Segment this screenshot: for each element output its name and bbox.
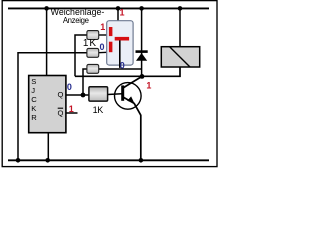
LED segment bar 2 (red) <box>109 42 113 53</box>
junction node on rail at diode <box>139 6 144 11</box>
junction node on rail at LED <box>116 6 121 11</box>
LED segment bar 1 (red) <box>109 27 113 36</box>
collector lead <box>124 76 142 87</box>
diode D1 flyback <box>136 50 148 60</box>
wire diode branch vertical <box>141 8 143 76</box>
junction node ground left <box>16 158 21 163</box>
wire R3 left to Q node <box>83 69 88 95</box>
wire R3 right to diode net <box>99 68 142 70</box>
junction node ground emitter <box>139 158 144 163</box>
flip-flop U1 <box>29 76 66 133</box>
wire flip-flop bottom pin to ground <box>47 133 49 161</box>
junction node ground FF <box>45 158 50 163</box>
wire bottom ground rail <box>8 159 209 161</box>
resistor R3 <box>87 64 99 73</box>
svg-text:R: R <box>31 113 37 122</box>
resistor R1 1K <box>87 31 99 40</box>
svg-text:1: 1 <box>146 80 151 90</box>
svg-text:1: 1 <box>119 8 124 18</box>
svg-text:J: J <box>31 86 35 95</box>
transistor Q1 <box>115 76 143 115</box>
svg-text:Anzeige: Anzeige <box>63 16 89 25</box>
wire R2 right to LED block <box>99 51 111 54</box>
svg-text:0: 0 <box>67 82 72 92</box>
emitter arrowhead <box>127 96 134 103</box>
wire R1 right to LED block <box>99 34 111 36</box>
wire Q-bar output stub <box>66 112 78 114</box>
resistor R4 1K (base) <box>89 87 108 101</box>
junction node on rail at FF <box>44 6 49 11</box>
svg-text:0: 0 <box>99 42 104 52</box>
wire relay top pin from rail <box>179 8 181 46</box>
svg-text:S: S <box>31 77 36 86</box>
svg-text:Q: Q <box>57 90 63 99</box>
LED common cathode stem to bottom pin <box>119 40 121 68</box>
border frame <box>2 1 217 167</box>
junction node Q wire <box>81 93 86 98</box>
svg-text:0: 0 <box>120 61 125 71</box>
svg-text:1: 1 <box>69 104 74 114</box>
svg-text:1: 1 <box>100 22 105 32</box>
LED indicator block <box>107 21 133 68</box>
junction node collector net <box>140 74 145 79</box>
relay K1 coil <box>161 47 199 67</box>
wire R1 left down to collector net <box>75 35 88 76</box>
wire left vertical from R2 to bottom rail <box>18 53 88 161</box>
wire top supply rail <box>8 7 209 9</box>
emitter lead <box>124 97 141 115</box>
svg-text:1K: 1K <box>83 38 97 49</box>
svg-text:K: K <box>31 104 36 113</box>
wire emitter to ground <box>140 115 142 161</box>
wire Q output <box>66 94 89 96</box>
wire flip-flop top pin from rail <box>46 8 48 75</box>
svg-text:Q: Q <box>57 109 63 118</box>
resistor R2 1K <box>87 48 99 57</box>
svg-text:C: C <box>31 95 37 104</box>
wire LED block top pin from rail <box>117 8 119 21</box>
wire collector net horizontal to relay <box>75 67 180 76</box>
junction node on rail at relay <box>178 6 183 11</box>
LED common bar (red) <box>115 37 129 41</box>
wire base resistor to transistor base <box>108 93 122 96</box>
svg-text:1K: 1K <box>93 105 104 115</box>
